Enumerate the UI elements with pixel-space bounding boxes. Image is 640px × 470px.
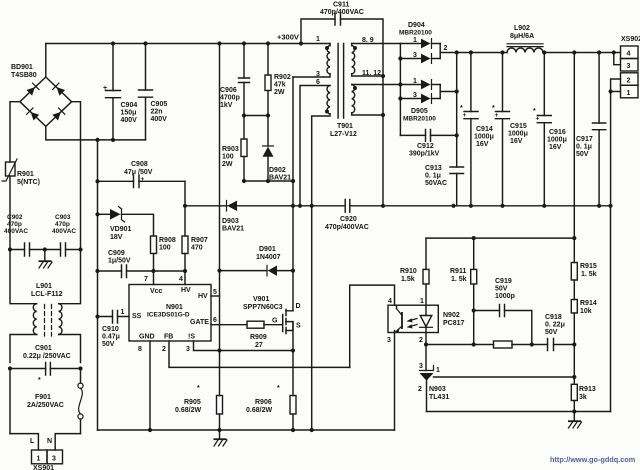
svg-text:1000p: 1000p: [495, 293, 515, 300]
svg-text:R906: R906: [255, 399, 272, 406]
opto pin2 lead: [425, 333, 427, 345]
pin 3 jog wire: [614, 53, 621, 65]
svg-text:1. 5k: 1. 5k: [581, 271, 597, 278]
svg-text:L901: L901: [36, 283, 52, 290]
shunt regulator N903 TL431: [418, 345, 576, 412]
svg-text:R907: R907: [191, 237, 208, 244]
dual diode D904 MBR20100: [398, 22, 456, 135]
svg-text:6: 6: [213, 317, 217, 324]
svg-text:2W: 2W: [274, 89, 285, 96]
resistor R915 1.5k: [571, 53, 597, 281]
svg-text:1kV: 1kV: [220, 102, 233, 109]
wire TL431 anode to ground: [427, 411, 611, 413]
svg-text:1N4007: 1N4007: [256, 254, 281, 261]
inductor L902 8uH/6A: [507, 25, 543, 53]
capacitor C917 0.1u 50V: [576, 53, 606, 206]
svg-text:50V: 50V: [576, 151, 589, 158]
zener VD901 18V: [98, 207, 154, 242]
svg-text:3k: 3k: [579, 394, 587, 401]
wire primary bottom rail: [98, 429, 395, 431]
svg-text:100: 100: [222, 154, 234, 161]
svg-text:16V: 16V: [510, 138, 523, 145]
svg-text:BAV21: BAV21: [222, 226, 244, 233]
svg-text:D901: D901: [259, 246, 276, 253]
svg-text:400V: 400V: [151, 116, 168, 123]
transformer T901 L27-V12: [293, 36, 400, 430]
svg-text:C918: C918: [545, 314, 562, 321]
pin 8 GND lead: [149, 341, 151, 430]
svg-text:2: 2: [162, 346, 166, 353]
wire snubber top junction: [244, 115, 268, 117]
resistor R909 27: [247, 321, 282, 349]
wire MOSFET source to IS/R906: [292, 322, 294, 396]
svg-text:1000μ: 1000μ: [508, 131, 528, 138]
svg-text:R911: R911: [450, 268, 466, 275]
capacitor C903 470p 400VAC: [52, 214, 76, 256]
svg-text:MBR20100: MBR20100: [399, 30, 432, 37]
svg-text:8μH/6A: 8μH/6A: [510, 33, 534, 40]
svg-text:D902: D902: [269, 167, 286, 174]
svg-text:0. 1μ: 0. 1μ: [425, 173, 441, 180]
svg-text:1μ/50V: 1μ/50V: [108, 258, 131, 265]
capacitor C904 150u 400V: [103, 44, 137, 140]
svg-text:2: 2: [419, 337, 423, 344]
svg-text:3: 3: [186, 346, 190, 353]
svg-text:C909: C909: [108, 250, 125, 257]
svg-text:C917: C917: [576, 136, 593, 143]
svg-text:C905: C905: [151, 101, 168, 108]
capacitor C914 1000u 16V: [460, 53, 494, 206]
capacitor C911 470p/400VAC: [301, 2, 383, 206]
wire secondary +V rail: [457, 52, 621, 54]
svg-text:D904: D904: [408, 22, 425, 29]
svg-text:50VAC: 50VAC: [425, 180, 447, 187]
opto LED: [425, 305, 427, 315]
capacitor C915 1000u 16V: [492, 53, 528, 206]
svg-text:0.47μ: 0.47μ: [102, 334, 120, 341]
svg-text:16V: 16V: [549, 144, 562, 151]
wire feedback top row: [426, 237, 574, 239]
svg-text:C903: C903: [55, 214, 71, 221]
capacitor C909 1u/50V: [98, 250, 188, 278]
common-mode choke L901 LCL-F112: [10, 250, 81, 363]
svg-text:1: 1: [37, 456, 41, 463]
svg-text:18V: 18V: [110, 234, 123, 241]
pin 5 stub: [211, 295, 220, 297]
svg-text:1000μ: 1000μ: [474, 134, 494, 141]
svg-text:400VAC: 400VAC: [52, 228, 76, 235]
svg-text:GND: GND: [139, 334, 155, 341]
svg-text:N: N: [47, 438, 52, 445]
svg-text:D903: D903: [222, 218, 239, 225]
svg-text:ICE3DS01G-D: ICE3DS01G-D: [147, 312, 190, 319]
svg-text:50V: 50V: [102, 341, 115, 348]
wire +300V rail: [46, 43, 330, 45]
svg-text:8: 8: [138, 346, 142, 353]
svg-text:C904: C904: [121, 102, 138, 109]
wire bridge minus bus: [46, 126, 146, 139]
svg-text:0. 22μ: 0. 22μ: [545, 322, 565, 329]
svg-text:C911: C911: [333, 2, 349, 9]
resistor R910 1.5k: [400, 238, 429, 305]
capacitor C902 470p 400VAC: [4, 214, 30, 256]
svg-text:D905: D905: [411, 108, 428, 115]
svg-text:4: 4: [627, 51, 631, 58]
svg-text:*: *: [277, 385, 280, 392]
connector XS901: [10, 434, 81, 470]
svg-text:GATE: GATE: [190, 319, 209, 326]
wire bridge AC right down: [72, 102, 81, 249]
svg-text:7: 7: [144, 276, 148, 283]
svg-text:1: 1: [121, 309, 125, 316]
svg-text:+: +: [103, 85, 107, 92]
svg-text:!S: !S: [188, 334, 195, 341]
svg-text:470p/400VAC: 470p/400VAC: [320, 9, 364, 16]
svg-text:10k: 10k: [580, 308, 592, 315]
svg-text:TL431: TL431: [429, 394, 449, 401]
svg-text:400V: 400V: [121, 117, 138, 124]
capacitor C910 0.47u 50V: [98, 309, 130, 348]
svg-text:D: D: [296, 303, 301, 310]
svg-text:R913: R913: [579, 386, 596, 393]
svg-text:+: +: [536, 116, 540, 123]
svg-text:470: 470: [191, 245, 203, 252]
ground symbol (between C902/C903): [39, 250, 53, 269]
svg-text:Vcc: Vcc: [150, 288, 163, 295]
svg-text:*: *: [38, 377, 41, 384]
ground symbol (primary bottom rail): [214, 430, 228, 446]
svg-text:L902: L902: [514, 25, 530, 32]
resistor R914 10k: [571, 280, 597, 384]
capacitor C920 470p/400VAC: [325, 200, 383, 232]
svg-text:C908: C908: [131, 161, 148, 168]
svg-text:1.5k: 1.5k: [401, 276, 415, 283]
optocoupler N902 PC817: [387, 298, 465, 344]
svg-text:T901: T901: [337, 123, 353, 130]
svg-text:C901: C901: [35, 345, 52, 352]
svg-text:3: 3: [627, 63, 631, 70]
svg-text:0.68/2W: 0.68/2W: [175, 407, 201, 414]
svg-text:1: 1: [420, 298, 424, 305]
svg-text:3: 3: [419, 363, 423, 370]
wire HV sense vertical (rail to R905): [219, 44, 221, 396]
svg-text:+: +: [495, 112, 499, 119]
svg-text:2: 2: [627, 77, 631, 84]
svg-text:R909: R909: [250, 334, 267, 341]
wire snubber bottom junction: [244, 180, 293, 182]
bridge rectifier BD901 T4SB80: [11, 44, 72, 127]
svg-text:R914: R914: [580, 300, 597, 307]
capacitor C919 50V 1000p: [474, 278, 534, 347]
svg-text:+300V: +300V: [277, 33, 299, 42]
svg-text:N903: N903: [429, 386, 446, 393]
ground symbol (secondary): [568, 412, 582, 429]
svg-text:BD901: BD901: [11, 64, 33, 71]
opto transistor: [396, 305, 398, 308]
svg-text:R901: R901: [17, 171, 34, 178]
svg-text:R903: R903: [222, 146, 239, 153]
svg-text:3: 3: [52, 456, 56, 463]
core: [338, 44, 344, 119]
svg-text:C912: C912: [417, 143, 434, 150]
svg-text:1: 1: [316, 36, 320, 43]
svg-text:27: 27: [255, 342, 263, 349]
svg-text:4: 4: [179, 276, 183, 283]
pin 6 gate lead: [211, 324, 247, 326]
svg-text:SPP7N60C3: SPP7N60C3: [243, 304, 283, 311]
capacitor C906 4700p 1kV: [220, 44, 250, 116]
svg-text:VD901: VD901: [110, 226, 132, 233]
capacitor C901 0.22u/250VAC: [8, 345, 83, 434]
capacitor C913 0.1u 50VAC: [425, 53, 464, 206]
svg-text:R902: R902: [274, 74, 291, 81]
svg-text:1. 5k: 1. 5k: [451, 276, 467, 283]
svg-text:400VAC: 400VAC: [4, 228, 28, 235]
svg-text:FB: FB: [164, 334, 173, 341]
pin 2 / pin 1 return wire: [611, 79, 621, 206]
svg-text:LCL-F112: LCL-F112: [31, 291, 63, 298]
svg-text:C906: C906: [220, 87, 237, 94]
diode D902 BAV21: [263, 116, 292, 182]
resistor R913 3k: [571, 384, 596, 411]
svg-text:http://www.go-gddq.com: http://www.go-gddq.com: [550, 455, 636, 464]
svg-text:0. 1μ: 0. 1μ: [576, 144, 592, 151]
svg-text:HV: HV: [198, 293, 208, 300]
svg-text:XS901: XS901: [33, 465, 54, 470]
wire bridge AC left to R901: [10, 102, 20, 162]
svg-text:*: *: [533, 108, 536, 115]
svg-text:XS902: XS902: [621, 36, 640, 43]
svg-text:SS: SS: [132, 313, 142, 320]
wire drain line: [292, 77, 294, 311]
svg-text:1000μ: 1000μ: [547, 137, 567, 144]
svg-text:L: L: [30, 438, 35, 445]
pin 2 FB lead: [169, 341, 350, 367]
secondary winding lower: [352, 85, 355, 113]
svg-text:+: +: [463, 112, 467, 119]
resistor R902 47k 2W: [265, 44, 291, 116]
svg-text:*: *: [460, 105, 463, 112]
pin 3 IS lead: [194, 341, 294, 351]
MOSFET V901 SPP7N60C3: [243, 296, 301, 334]
svg-text:0.68/2W: 0.68/2W: [246, 407, 272, 414]
svg-text:5: 5: [213, 289, 217, 296]
wire secondary ground bus: [383, 205, 611, 207]
svg-text:22n: 22n: [151, 109, 163, 116]
svg-text:47k: 47k: [274, 82, 286, 89]
capacitor C905 22n 400V: [139, 44, 168, 140]
svg-text:1: 1: [627, 90, 631, 97]
svg-text:N902: N902: [443, 312, 460, 319]
svg-text:V901: V901: [253, 296, 269, 303]
diode D901 1N4007: [220, 246, 294, 276]
svg-text:2: 2: [418, 386, 422, 393]
wire secondary ground return: [610, 206, 612, 412]
capacitor C912 390p/1kV: [400, 130, 456, 158]
feedback network row: [426, 344, 574, 346]
svg-text:*: *: [197, 385, 200, 392]
capacitor C918 0.22u 50V: [545, 314, 565, 351]
opto pin4 lead to FB riser: [350, 285, 395, 367]
svg-text:1: 1: [436, 367, 440, 374]
diode D903 BAV21: [185, 201, 345, 233]
resistor R911 1.5k: [450, 238, 477, 347]
wire C908 right to D903 node: [184, 181, 186, 236]
svg-text:C915: C915: [510, 123, 527, 130]
svg-text:+: +: [141, 176, 145, 183]
wire R901 to line filter row: [9, 176, 11, 249]
svg-text:R910: R910: [400, 268, 417, 275]
svg-text:5(NTC): 5(NTC): [17, 179, 40, 186]
resistor R912: [494, 341, 513, 348]
svg-text:C920: C920: [340, 216, 357, 223]
svg-text:150μ: 150μ: [121, 110, 137, 117]
svg-text:2W: 2W: [222, 161, 233, 168]
svg-text:MBR20100: MBR20100: [403, 116, 436, 123]
capacitor C916 1000u 16V: [533, 53, 567, 206]
resistor R908 100: [151, 236, 176, 285]
svg-text:C913: C913: [425, 165, 442, 172]
thermistor R901 5(NTC): [2, 159, 40, 186]
junction dots on +300V rail: [111, 41, 115, 45]
svg-text:0.22μ /250VAC: 0.22μ /250VAC: [23, 353, 71, 360]
resistor R903 100 2W: [222, 116, 247, 182]
wire primary ground line: [97, 140, 99, 430]
svg-text:HV: HV: [181, 287, 191, 294]
svg-text:470p/400VAC: 470p/400VAC: [325, 224, 369, 231]
svg-text:C916: C916: [549, 129, 566, 136]
resistor R907 470: [182, 236, 208, 285]
svg-text:C919: C919: [495, 278, 512, 285]
svg-text:2A/250VAC: 2A/250VAC: [27, 402, 64, 409]
svg-text:470p: 470p: [55, 221, 70, 228]
svg-text:L27-V12: L27-V12: [330, 131, 357, 138]
svg-text:T4SB80: T4SB80: [11, 72, 37, 79]
svg-text:390p/1kV: 390p/1kV: [409, 151, 440, 158]
svg-text:G: G: [272, 318, 278, 325]
svg-text:*: *: [492, 105, 495, 112]
svg-text:3: 3: [387, 337, 391, 344]
svg-text:100: 100: [159, 245, 171, 252]
svg-text:S: S: [296, 323, 301, 330]
wire line filter input row: [10, 249, 81, 251]
svg-text:R915: R915: [580, 263, 597, 270]
svg-text:N901: N901: [166, 304, 183, 311]
dual diode D905 MBR20100: [400, 78, 456, 123]
resistor R906 0.68/2W: [246, 385, 296, 430]
svg-text:C914: C914: [476, 126, 493, 133]
svg-text:2: 2: [444, 45, 448, 52]
svg-text:R908: R908: [159, 237, 176, 244]
svg-text:C902: C902: [7, 214, 23, 221]
IC N901 ICE3DS01G-D: [129, 285, 211, 342]
fuse F901 2A/250VAC: [27, 377, 83, 434]
svg-text:4700p: 4700p: [220, 95, 240, 102]
svg-text:PC817: PC817: [443, 320, 465, 327]
resistor R905 0.68/2W: [175, 385, 223, 430]
svg-text:C910: C910: [102, 326, 119, 333]
opto pin3 lead to primary rail: [394, 333, 396, 431]
svg-text:R905: R905: [184, 399, 201, 406]
svg-text:16V: 16V: [476, 141, 489, 148]
svg-text:F901: F901: [35, 394, 51, 401]
capacitor C908 47u/50V: [98, 161, 186, 188]
svg-text:4: 4: [388, 298, 392, 305]
svg-text:470p: 470p: [7, 221, 22, 228]
svg-text:50V: 50V: [495, 286, 508, 293]
connector XS902: [609, 36, 640, 206]
svg-text:50V: 50V: [545, 329, 558, 336]
